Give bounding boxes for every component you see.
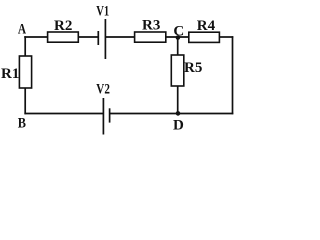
resistor R4 [189,18,220,42]
wire R3 to R4 through node C [166,36,190,38]
wire R5 down to D [177,86,179,114]
svg-text:R1: R1 [1,66,19,82]
svg-text:R4: R4 [197,18,216,34]
node D [173,111,184,133]
wire right side vertical [232,36,234,114]
svg-text:D: D [173,118,184,134]
svg-text:A: A [18,22,26,38]
resistor R5 [171,55,202,86]
wire V1 to R3 [105,36,135,38]
svg-text:C: C [173,23,184,39]
wire A to R2 (top left horizontal) [24,36,48,38]
svg-text:V2: V2 [96,82,110,98]
svg-text:R5: R5 [184,60,202,76]
svg-text:R3: R3 [142,18,160,34]
battery V1 [96,4,109,59]
wire C down to R5 [177,37,179,56]
svg-text:V1: V1 [96,4,109,20]
resistor R3 [135,18,166,43]
wire R4 to top right corner [219,36,233,38]
node C [173,23,184,39]
wire A down to R1 [24,36,26,56]
wire V2 to bottom right corner through node D [110,113,234,115]
battery V2 [96,82,110,135]
wire B to V2 (bottom left horizontal) [24,113,103,115]
svg-text:R2: R2 [54,18,72,34]
svg-text:B: B [18,115,26,131]
wire R1 down to B [24,88,26,114]
wire R2 to V1 [78,36,98,38]
resistor R1 [1,56,32,88]
resistor R2 [48,18,79,42]
